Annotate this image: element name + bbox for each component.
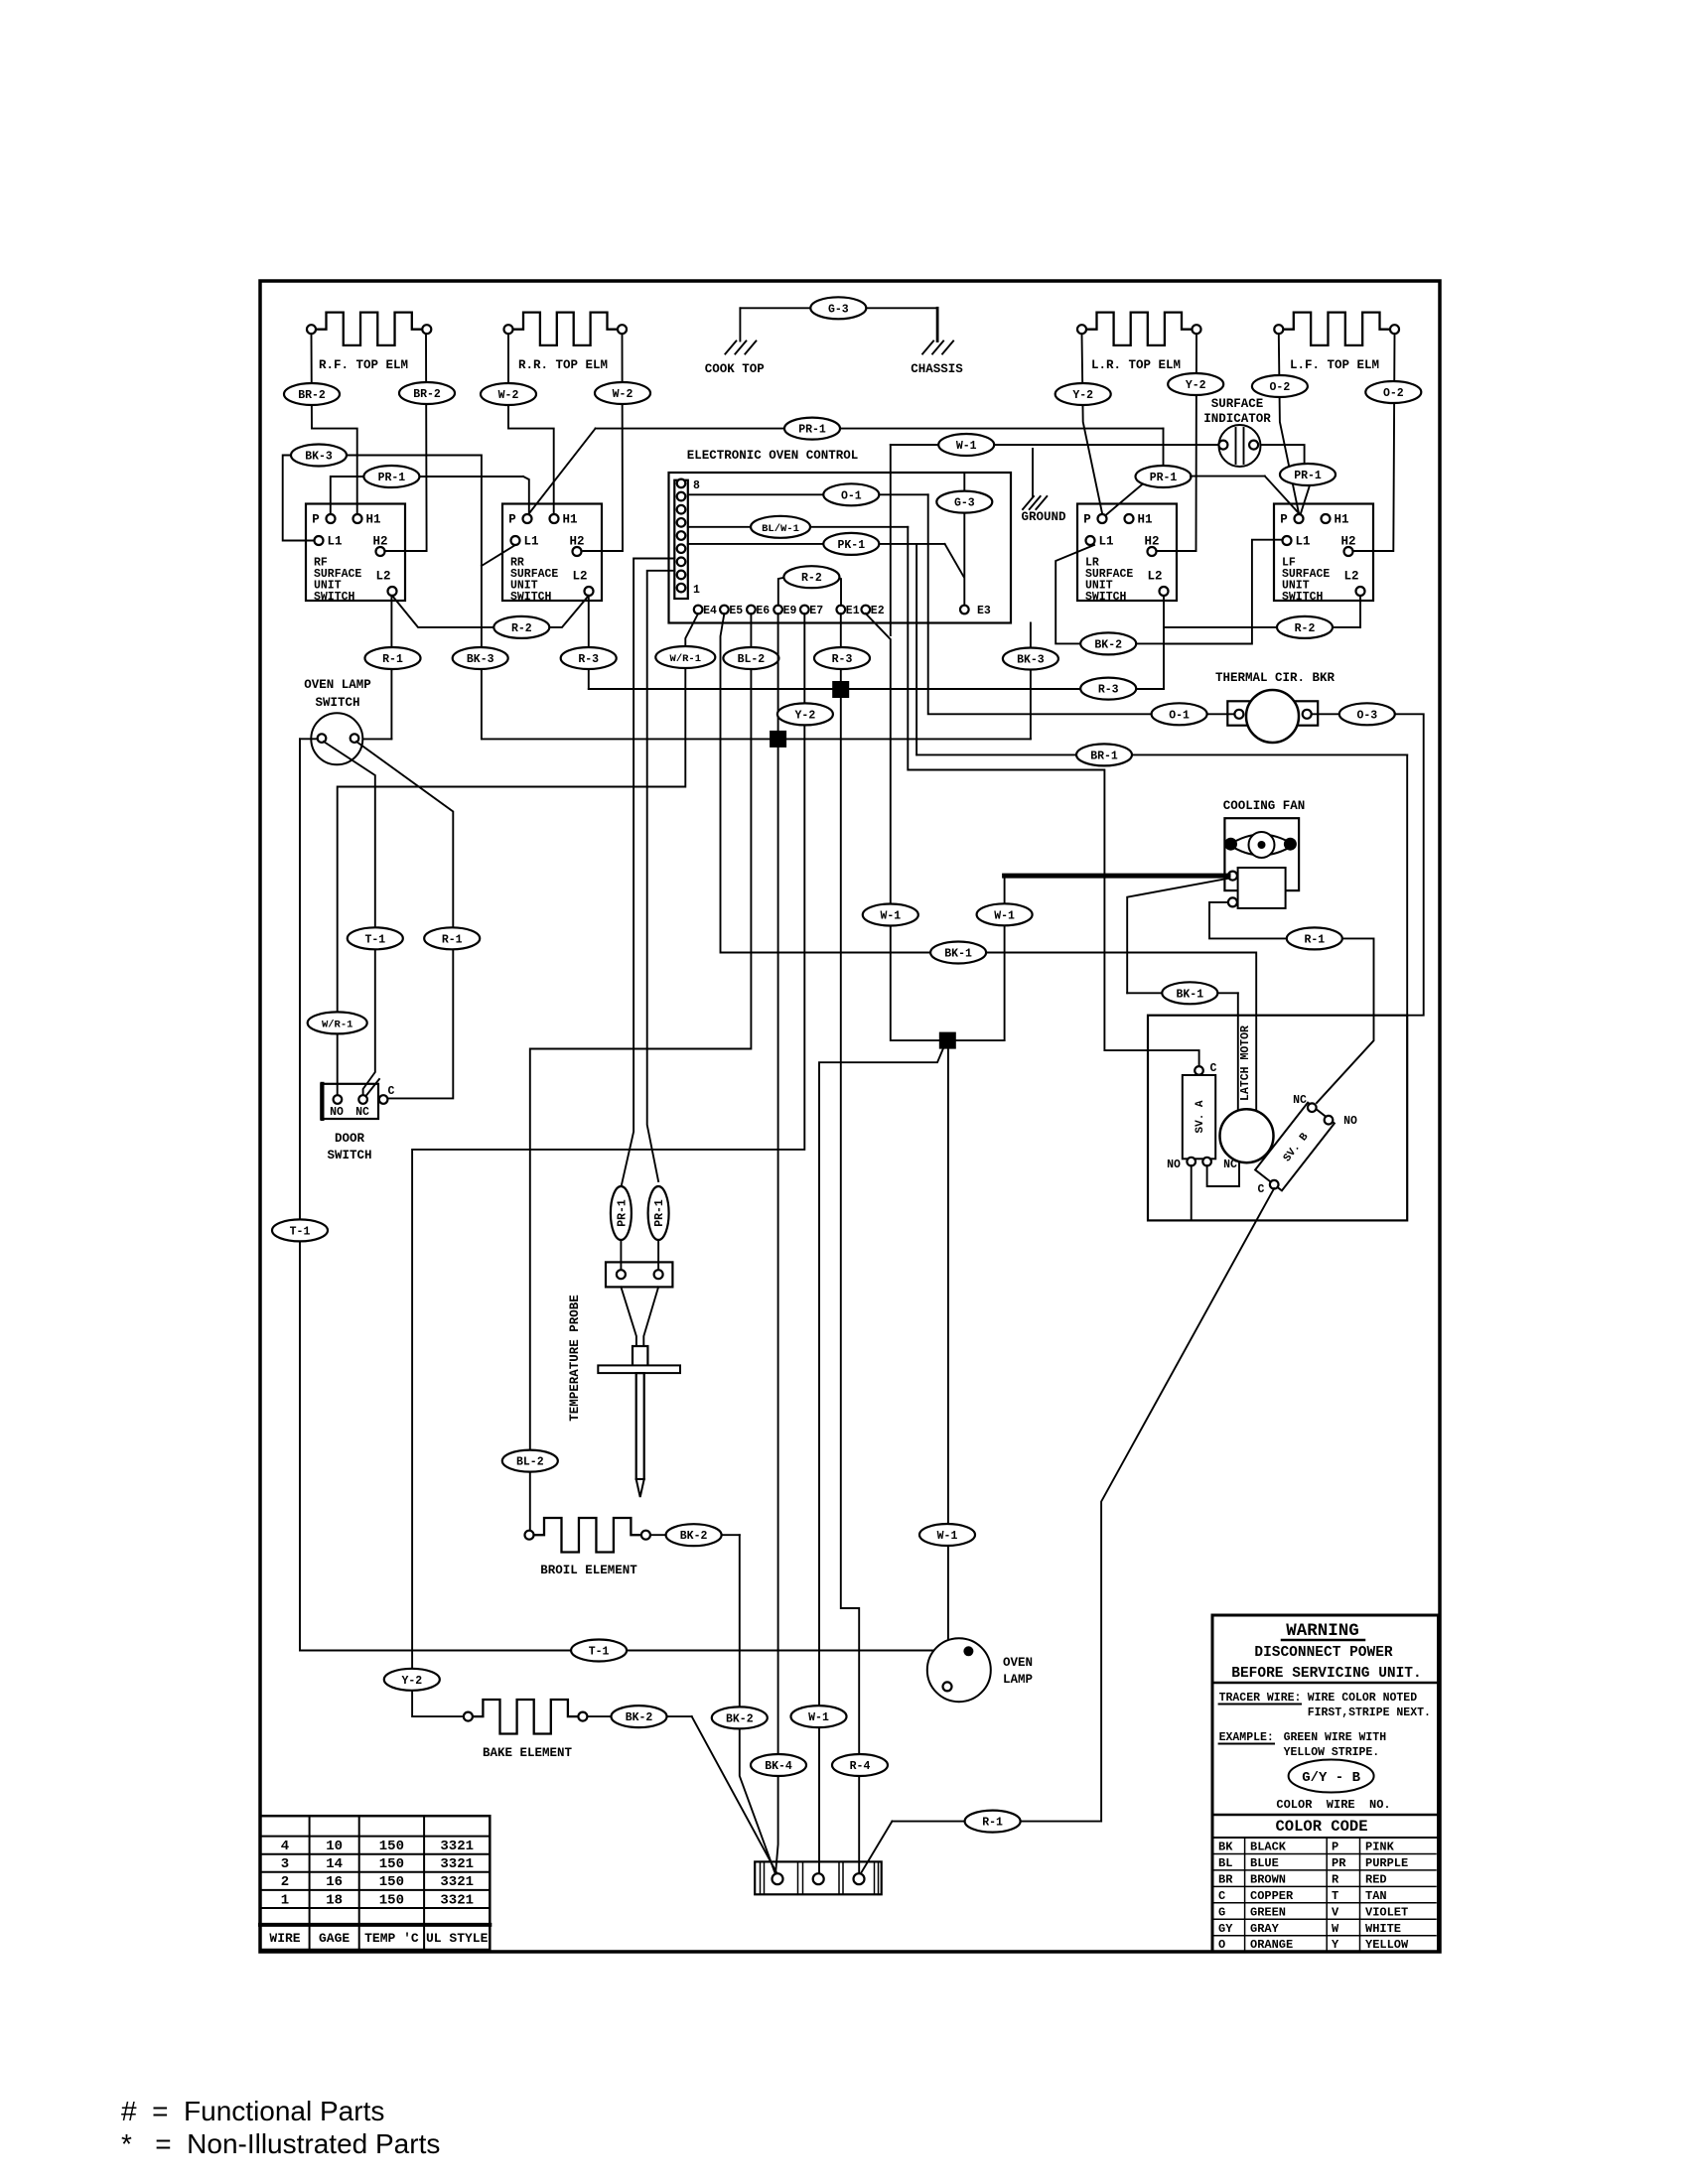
svg-text:WARNING: WARNING — [1286, 1621, 1359, 1641]
svg-text:16: 16 — [326, 1874, 343, 1890]
svg-text:2: 2 — [281, 1874, 289, 1890]
svg-text:YELLOW: YELLOW — [1365, 1938, 1409, 1952]
svg-text:R-3: R-3 — [1098, 684, 1119, 697]
svg-text:SWITCH: SWITCH — [510, 591, 552, 604]
svg-text:R-3: R-3 — [578, 653, 599, 666]
svg-text:GY: GY — [1218, 1922, 1233, 1936]
svg-text:COLOR WIRE NO.: COLOR WIRE NO. — [1276, 1798, 1390, 1812]
svg-text:P: P — [1083, 513, 1091, 527]
svg-text:O-2: O-2 — [1383, 387, 1404, 400]
svg-text:SWITCH: SWITCH — [314, 591, 355, 604]
svg-text:* = Non-Illustrated Parts: * = Non-Illustrated Parts — [121, 2128, 440, 2159]
svg-text:O-1: O-1 — [1169, 709, 1190, 722]
svg-text:W-2: W-2 — [498, 389, 519, 402]
svg-text:8: 8 — [693, 479, 700, 492]
svg-text:PR-1: PR-1 — [1294, 470, 1322, 482]
svg-text:NC: NC — [1293, 1094, 1307, 1107]
svg-text:E4: E4 — [703, 605, 717, 617]
svg-text:PINK: PINK — [1365, 1841, 1395, 1854]
svg-text:R-2: R-2 — [801, 572, 822, 585]
svg-text:BK-3: BK-3 — [467, 653, 494, 666]
svg-text:1: 1 — [693, 584, 700, 597]
svg-text:R-2: R-2 — [1295, 622, 1316, 635]
svg-text:BK-1: BK-1 — [944, 948, 972, 961]
svg-text:BL: BL — [1218, 1856, 1232, 1870]
svg-text:BK-2: BK-2 — [626, 1711, 653, 1724]
svg-text:C: C — [1210, 1062, 1217, 1075]
svg-text:H1: H1 — [562, 513, 577, 527]
svg-text:COPPER: COPPER — [1250, 1889, 1294, 1903]
svg-text:T-1: T-1 — [589, 1646, 610, 1659]
svg-text:GREEN WIRE WITH: GREEN WIRE WITH — [1284, 1731, 1387, 1744]
svg-text:# = Functional Parts: # = Functional Parts — [121, 2096, 384, 2126]
svg-text:SV. A: SV. A — [1195, 1100, 1206, 1133]
svg-text:W/R-1: W/R-1 — [322, 1019, 353, 1030]
svg-text:OVEN: OVEN — [1003, 1656, 1033, 1670]
svg-text:PR-1: PR-1 — [616, 1199, 629, 1227]
svg-text:P: P — [508, 513, 516, 527]
svg-text:BR: BR — [1218, 1872, 1233, 1886]
svg-text:PURPLE: PURPLE — [1365, 1856, 1408, 1870]
svg-text:WIRE: WIRE — [269, 1931, 300, 1946]
svg-text:UL STYLE: UL STYLE — [426, 1931, 489, 1946]
svg-text:SWITCH: SWITCH — [315, 696, 359, 710]
svg-text:R-1: R-1 — [1304, 933, 1325, 946]
svg-text:BL-2: BL-2 — [738, 653, 766, 666]
svg-text:14: 14 — [326, 1856, 343, 1872]
svg-text:4: 4 — [281, 1839, 289, 1854]
svg-text:BAKE ELEMENT: BAKE ELEMENT — [483, 1746, 573, 1760]
svg-text:T: T — [1332, 1889, 1338, 1903]
svg-text:150: 150 — [379, 1856, 404, 1872]
svg-text:GREEN: GREEN — [1250, 1905, 1286, 1919]
svg-text:GROUND: GROUND — [1021, 510, 1066, 524]
svg-text:Y-2: Y-2 — [1072, 389, 1093, 402]
svg-text:BK: BK — [1218, 1841, 1233, 1854]
svg-text:G-3: G-3 — [828, 303, 849, 316]
svg-text:3321: 3321 — [440, 1874, 474, 1890]
svg-text:BK-3: BK-3 — [305, 451, 333, 464]
svg-text:COOLING FAN: COOLING FAN — [1223, 799, 1306, 813]
svg-text:150: 150 — [379, 1874, 404, 1890]
svg-text:BK-2: BK-2 — [726, 1712, 754, 1725]
svg-text:G: G — [1218, 1905, 1225, 1919]
svg-text:E2: E2 — [871, 605, 885, 617]
svg-text:L1: L1 — [523, 535, 538, 549]
svg-text:EXAMPLE:: EXAMPLE: — [1219, 1731, 1274, 1744]
svg-text:TAN: TAN — [1365, 1889, 1387, 1903]
svg-text:P: P — [1332, 1841, 1338, 1854]
svg-text:Y: Y — [1332, 1938, 1339, 1952]
svg-text:1: 1 — [281, 1892, 289, 1908]
svg-text:DOOR: DOOR — [335, 1132, 365, 1146]
svg-text:O: O — [1218, 1938, 1225, 1952]
svg-text:BLACK: BLACK — [1250, 1841, 1287, 1854]
svg-text:NO: NO — [330, 1106, 344, 1119]
svg-text:BROWN: BROWN — [1250, 1872, 1286, 1886]
svg-text:BR-2: BR-2 — [298, 389, 326, 402]
svg-text:BL-2: BL-2 — [516, 1456, 544, 1469]
svg-text:BK-2: BK-2 — [1094, 638, 1122, 651]
svg-text:E7: E7 — [809, 605, 823, 617]
svg-text:GAGE: GAGE — [319, 1931, 350, 1946]
svg-text:3: 3 — [281, 1856, 289, 1872]
svg-text:C: C — [1258, 1183, 1265, 1196]
svg-text:BLUE: BLUE — [1250, 1856, 1279, 1870]
svg-text:E1: E1 — [846, 605, 860, 617]
svg-text:L2: L2 — [572, 570, 587, 584]
svg-text:BROIL ELEMENT: BROIL ELEMENT — [540, 1564, 637, 1577]
svg-text:Y-2: Y-2 — [795, 709, 816, 722]
svg-text:W-2: W-2 — [613, 388, 633, 401]
svg-text:H2: H2 — [1144, 535, 1159, 549]
svg-text:L1: L1 — [327, 535, 342, 549]
svg-text:P: P — [312, 513, 320, 527]
svg-text:BK-1: BK-1 — [1176, 988, 1203, 1001]
svg-text:BEFORE SERVICING UNIT.: BEFORE SERVICING UNIT. — [1231, 1666, 1421, 1682]
svg-text:H1: H1 — [365, 513, 380, 527]
svg-text:YELLOW STRIPE.: YELLOW STRIPE. — [1284, 1746, 1380, 1759]
svg-text:W-1: W-1 — [808, 1711, 829, 1724]
svg-text:V: V — [1332, 1905, 1339, 1919]
svg-text:PR: PR — [1332, 1856, 1346, 1870]
svg-text:3321: 3321 — [440, 1892, 474, 1908]
svg-text:L2: L2 — [1147, 570, 1162, 584]
svg-text:NO: NO — [1167, 1159, 1181, 1171]
svg-text:C: C — [388, 1085, 395, 1098]
svg-text:L2: L2 — [375, 570, 390, 584]
svg-text:Y-2: Y-2 — [1186, 379, 1206, 392]
svg-text:SWITCH: SWITCH — [1085, 591, 1127, 604]
svg-text:O-3: O-3 — [1356, 709, 1377, 722]
svg-text:BK-4: BK-4 — [765, 1760, 792, 1773]
svg-text:O-1: O-1 — [841, 489, 862, 502]
svg-text:G/Y - B: G/Y - B — [1302, 1770, 1360, 1786]
svg-text:L2: L2 — [1343, 570, 1358, 584]
svg-text:BR-2: BR-2 — [413, 388, 441, 401]
svg-text:R.F. TOP ELM: R.F. TOP ELM — [319, 358, 408, 372]
svg-text:R-2: R-2 — [511, 622, 532, 635]
svg-text:PR-1: PR-1 — [653, 1199, 666, 1227]
svg-text:PK-1: PK-1 — [837, 539, 865, 552]
svg-text:H2: H2 — [372, 535, 387, 549]
svg-text:3321: 3321 — [440, 1856, 474, 1872]
svg-text:10: 10 — [326, 1839, 343, 1854]
svg-text:NC: NC — [355, 1106, 369, 1119]
svg-text:P: P — [1280, 513, 1288, 527]
svg-text:R-3: R-3 — [832, 653, 853, 666]
svg-text:H1: H1 — [1334, 513, 1348, 527]
svg-text:BR-1: BR-1 — [1090, 750, 1118, 762]
svg-text:PR-1: PR-1 — [378, 472, 406, 484]
svg-text:BK-3: BK-3 — [1017, 654, 1045, 667]
svg-text:W-1: W-1 — [937, 1530, 958, 1543]
svg-text:RED: RED — [1365, 1872, 1387, 1886]
svg-text:E5: E5 — [729, 605, 743, 617]
svg-text:LAMP: LAMP — [1003, 1673, 1033, 1687]
svg-text:PR-1: PR-1 — [798, 424, 826, 437]
svg-text:W-1: W-1 — [956, 440, 977, 453]
svg-text:CHASSIS: CHASSIS — [911, 362, 963, 376]
svg-text:3321: 3321 — [440, 1839, 474, 1854]
svg-text:NC: NC — [1223, 1159, 1237, 1171]
svg-text:L1: L1 — [1295, 535, 1310, 549]
svg-text:150: 150 — [379, 1892, 404, 1908]
svg-text:TRACER WIRE:: TRACER WIRE: — [1219, 1692, 1302, 1705]
svg-text:W-1: W-1 — [880, 910, 901, 923]
svg-text:18: 18 — [326, 1892, 343, 1908]
svg-text:O-2: O-2 — [1270, 381, 1291, 394]
svg-text:GRAY: GRAY — [1250, 1922, 1280, 1936]
svg-text:W-1: W-1 — [994, 909, 1015, 922]
svg-text:E3: E3 — [977, 605, 991, 617]
svg-text:BL/W-1: BL/W-1 — [762, 523, 799, 535]
svg-text:FIRST,STRIPE NEXT.: FIRST,STRIPE NEXT. — [1308, 1706, 1431, 1719]
svg-text:DISCONNECT POWER: DISCONNECT POWER — [1254, 1645, 1393, 1661]
svg-text:Y-2: Y-2 — [401, 1675, 422, 1688]
svg-text:W/R-1: W/R-1 — [670, 653, 702, 665]
svg-text:SWITCH: SWITCH — [1282, 591, 1324, 604]
svg-text:H2: H2 — [1340, 535, 1355, 549]
svg-text:C: C — [1218, 1889, 1225, 1903]
svg-text:COLOR CODE: COLOR CODE — [1275, 1818, 1367, 1836]
svg-text:R-1: R-1 — [382, 653, 403, 666]
svg-text:H2: H2 — [569, 535, 584, 549]
svg-text:R.R. TOP ELM: R.R. TOP ELM — [518, 358, 608, 372]
svg-text:INDICATOR: INDICATOR — [1203, 412, 1271, 426]
svg-text:L1: L1 — [1098, 535, 1113, 549]
svg-text:LATCH MOTOR: LATCH MOTOR — [1239, 1025, 1252, 1101]
svg-text:R-4: R-4 — [850, 1760, 871, 1773]
svg-text:E6: E6 — [756, 605, 770, 617]
svg-text:150: 150 — [379, 1839, 404, 1854]
svg-text:G-3: G-3 — [954, 497, 975, 510]
svg-text:SWITCH: SWITCH — [327, 1149, 371, 1162]
svg-text:ELECTRONIC OVEN CONTROL: ELECTRONIC OVEN CONTROL — [687, 449, 859, 463]
svg-text:R: R — [1332, 1872, 1339, 1886]
svg-text:THERMAL CIR. BKR: THERMAL CIR. BKR — [1215, 671, 1336, 685]
svg-text:BK-2: BK-2 — [680, 1530, 708, 1543]
svg-text:T-1: T-1 — [290, 1225, 311, 1238]
svg-text:TEMP 'C: TEMP 'C — [364, 1931, 419, 1946]
svg-text:SURFACE: SURFACE — [1211, 397, 1264, 411]
svg-text:TEMPERATURE PROBE: TEMPERATURE PROBE — [568, 1295, 582, 1422]
svg-text:VIOLET: VIOLET — [1365, 1905, 1408, 1919]
svg-text:L.R. TOP ELM: L.R. TOP ELM — [1091, 358, 1181, 372]
svg-text:WIRE COLOR NOTED: WIRE COLOR NOTED — [1308, 1692, 1418, 1705]
svg-text:H1: H1 — [1137, 513, 1152, 527]
svg-text:R-1: R-1 — [442, 933, 463, 946]
svg-text:COOK TOP: COOK TOP — [705, 362, 765, 376]
svg-text:WHITE: WHITE — [1365, 1922, 1401, 1936]
svg-text:PR-1: PR-1 — [1150, 472, 1178, 484]
svg-text:E9: E9 — [783, 605, 797, 617]
svg-text:ORANGE: ORANGE — [1250, 1938, 1293, 1952]
svg-text:NO: NO — [1343, 1115, 1357, 1128]
svg-text:L.F. TOP ELM: L.F. TOP ELM — [1290, 358, 1379, 372]
svg-text:W: W — [1332, 1922, 1339, 1936]
svg-text:R-1: R-1 — [982, 1817, 1003, 1830]
svg-text:T-1: T-1 — [364, 933, 385, 946]
svg-text:OVEN LAMP: OVEN LAMP — [304, 678, 371, 692]
